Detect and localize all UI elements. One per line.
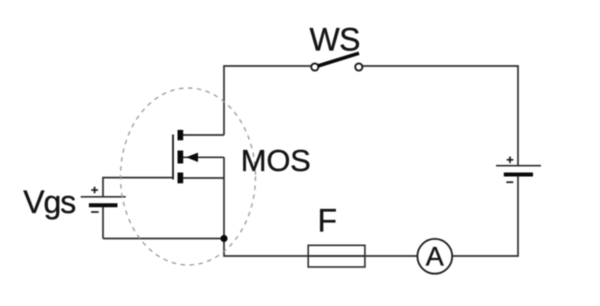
svg-text:F: F [318, 202, 338, 238]
svg-text:WS: WS [310, 21, 360, 57]
svg-text:A: A [426, 242, 444, 272]
svg-text:Vgs: Vgs [23, 184, 75, 220]
svg-text:MOS: MOS [241, 143, 311, 178]
